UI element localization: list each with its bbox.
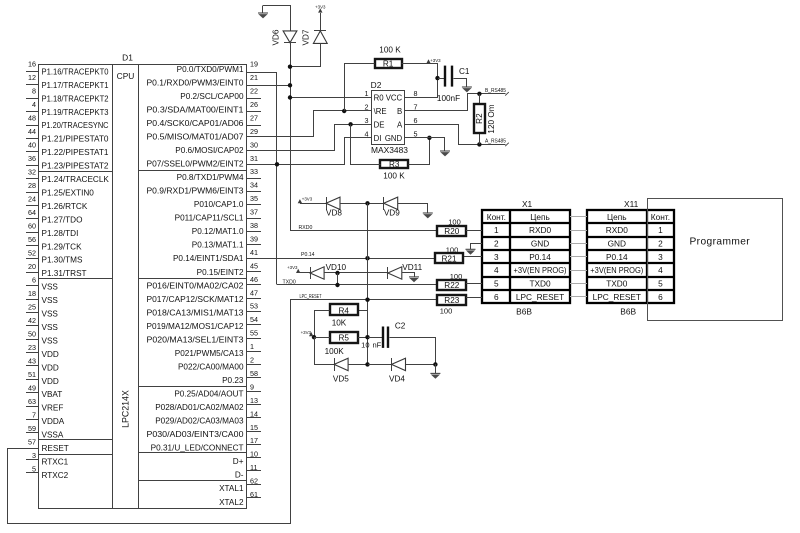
svg-text:2: 2: [365, 103, 369, 112]
svg-text:20: 20: [28, 262, 36, 271]
svg-text:P028/AD01/CA02/MA02: P028/AD01/CA02/MA02: [155, 403, 244, 412]
svg-text:VSSA: VSSA: [42, 431, 64, 440]
svg-text:P0.25/AD04/AOUT: P0.25/AD04/AOUT: [174, 390, 243, 399]
svg-text:Цепь: Цепь: [530, 212, 550, 222]
svg-text:55: 55: [250, 329, 258, 338]
svg-text:RTXC2: RTXC2: [42, 471, 69, 480]
svg-text:10: 10: [361, 340, 369, 349]
svg-text:47: 47: [250, 288, 258, 297]
svg-text:9: 9: [250, 382, 254, 391]
svg-text:+3V(EN PROG): +3V(EN PROG): [590, 265, 643, 275]
svg-text:B6B: B6B: [516, 306, 532, 316]
svg-text:VCC: VCC: [386, 94, 403, 103]
svg-text:VSS: VSS: [42, 336, 59, 345]
svg-text:13: 13: [250, 396, 258, 405]
svg-text:6: 6: [414, 116, 418, 125]
svg-text:61: 61: [250, 490, 258, 499]
svg-text:P1.30/TMS: P1.30/TMS: [42, 256, 83, 265]
svg-text:\RE: \RE: [374, 107, 387, 116]
svg-text:12: 12: [28, 73, 36, 82]
svg-text:2: 2: [494, 239, 499, 249]
svg-text:43: 43: [28, 357, 36, 366]
svg-text:22: 22: [250, 87, 258, 96]
svg-text:100: 100: [440, 306, 453, 315]
svg-text:RESET: RESET: [42, 444, 69, 453]
svg-text:44: 44: [28, 127, 36, 136]
svg-text:2: 2: [658, 239, 663, 249]
svg-text:R22: R22: [444, 281, 459, 290]
svg-text:P1.22/PIPESTAT1: P1.22/PIPESTAT1: [42, 148, 109, 157]
svg-text:42: 42: [28, 316, 36, 325]
svg-text:11: 11: [250, 463, 257, 472]
svg-text:VDD: VDD: [42, 377, 59, 386]
svg-text:C2: C2: [395, 321, 406, 330]
svg-text:50: 50: [28, 330, 36, 339]
svg-text:P0.4/SCK0/CAP01/AD06: P0.4/SCK0/CAP01/AD06: [147, 119, 244, 128]
svg-text:3: 3: [365, 116, 369, 125]
svg-text:P0.13/MAT1.1: P0.13/MAT1.1: [192, 241, 244, 250]
svg-text:29: 29: [250, 127, 258, 136]
svg-text:3: 3: [32, 451, 36, 460]
svg-text:P1.27/TDO: P1.27/TDO: [42, 215, 83, 224]
svg-text:R0: R0: [374, 94, 385, 103]
svg-text:P010/CAP1.0: P010/CAP1.0: [194, 200, 244, 209]
svg-text:3: 3: [658, 252, 663, 262]
svg-text:VSS: VSS: [42, 283, 59, 292]
svg-text:5: 5: [494, 279, 499, 289]
svg-text:100: 100: [450, 272, 463, 281]
svg-text:LPC_RESET: LPC_RESET: [300, 294, 323, 300]
svg-text:GND: GND: [531, 239, 549, 249]
svg-text:Programmer: Programmer: [689, 237, 750, 248]
svg-text:VD7: VD7: [302, 29, 311, 45]
svg-text:Цепь: Цепь: [607, 212, 627, 222]
svg-text:VREF: VREF: [42, 404, 64, 413]
svg-text:CPU: CPU: [117, 71, 135, 81]
svg-text:7: 7: [32, 411, 36, 420]
svg-text:100K: 100K: [325, 347, 345, 356]
svg-text:45: 45: [250, 261, 258, 270]
svg-text:R4: R4: [338, 306, 349, 315]
svg-text:53: 53: [250, 302, 258, 311]
svg-text:P1.24/TRACECLK: P1.24/TRACECLK: [42, 175, 110, 184]
svg-text:P030/AD03/EINT3/CA00: P030/AD03/EINT3/CA00: [147, 430, 244, 439]
svg-text:RTXC1: RTXC1: [42, 457, 69, 466]
svg-text:P029/AD02/CA03/MA03: P029/AD02/CA03/MA03: [155, 417, 244, 426]
svg-text:P0.14: P0.14: [606, 252, 628, 262]
svg-text:4: 4: [32, 100, 36, 109]
svg-text:1: 1: [365, 89, 369, 98]
svg-text:48: 48: [28, 114, 36, 123]
svg-text:P0.31/U_LED/CONNECT: P0.31/U_LED/CONNECT: [151, 444, 244, 453]
svg-text:VDDA: VDDA: [42, 417, 65, 426]
svg-text:P1.31/TRST: P1.31/TRST: [42, 269, 87, 278]
svg-text:LPC_RESET: LPC_RESET: [516, 292, 564, 302]
svg-text:26: 26: [250, 100, 258, 109]
svg-text:B: B: [397, 107, 402, 116]
svg-text:5: 5: [414, 129, 418, 138]
svg-text:25: 25: [28, 303, 36, 312]
svg-text:LPC214X: LPC214X: [121, 390, 131, 428]
svg-text:R21: R21: [441, 254, 456, 263]
svg-text:P1.16/TRACEPKT0: P1.16/TRACEPKT0: [42, 67, 109, 76]
svg-text:P1.29/TCK: P1.29/TCK: [42, 242, 83, 251]
svg-text:6: 6: [658, 292, 663, 302]
svg-text:D2: D2: [371, 80, 382, 90]
svg-text:46: 46: [250, 275, 258, 284]
svg-text:VSS: VSS: [42, 296, 59, 305]
svg-text:+3V3: +3V3: [315, 5, 326, 10]
svg-text:P0.5/MISO/MAT01/AD07: P0.5/MISO/MAT01/AD07: [147, 132, 244, 141]
svg-text:P0.6/MOSI/CAP02: P0.6/MOSI/CAP02: [175, 146, 244, 155]
svg-text:P0.3/SDA/MAT00/EINT1: P0.3/SDA/MAT00/EINT1: [147, 105, 244, 114]
svg-text:P019/MA12/MOS1/CAP12: P019/MA12/MOS1/CAP12: [147, 322, 244, 331]
svg-text:TXD0: TXD0: [606, 279, 628, 289]
svg-text:16: 16: [28, 60, 36, 69]
svg-text:R20: R20: [444, 227, 459, 236]
svg-text:18: 18: [28, 289, 36, 298]
svg-text:6: 6: [32, 276, 36, 285]
svg-text:TXD0: TXD0: [283, 280, 296, 286]
svg-text:64: 64: [28, 208, 36, 217]
svg-text:P0.14/EINT1/SDA1: P0.14/EINT1/SDA1: [173, 254, 244, 263]
svg-text:P0.15/EINT2: P0.15/EINT2: [197, 268, 244, 277]
svg-text:3: 3: [494, 252, 499, 262]
svg-text:P022/CA00/MA00: P022/CA00/MA00: [178, 362, 244, 371]
svg-text:VD4: VD4: [389, 375, 405, 384]
svg-text:XTAL1: XTAL1: [219, 484, 244, 493]
svg-text:41: 41: [250, 248, 258, 257]
svg-text:54: 54: [250, 315, 258, 324]
svg-text:VSS: VSS: [42, 323, 59, 332]
svg-text:P1.28/TDI: P1.28/TDI: [42, 229, 79, 238]
svg-text:8: 8: [32, 87, 36, 96]
svg-text:VD10: VD10: [326, 263, 347, 272]
svg-text:P0.1/RXD0/PWM3/EINT0: P0.1/RXD0/PWM3/EINT0: [147, 78, 244, 87]
svg-text:60: 60: [28, 222, 36, 231]
svg-text:VD8: VD8: [326, 209, 342, 218]
svg-text:X11: X11: [624, 199, 639, 209]
svg-text:59: 59: [28, 424, 36, 433]
svg-text:19: 19: [250, 60, 258, 69]
svg-text:28: 28: [28, 181, 36, 190]
svg-text:RXD0: RXD0: [606, 225, 629, 235]
svg-text:P018/CA13/MIS1/MAT13: P018/CA13/MIS1/MAT13: [147, 308, 244, 317]
svg-text:GND: GND: [385, 134, 403, 143]
svg-text:1: 1: [250, 342, 254, 351]
svg-text:P1.18/TRACEPKT2: P1.18/TRACEPKT2: [42, 94, 109, 103]
svg-text:P016/EINT0/MA02/CA02: P016/EINT0/MA02/CA02: [147, 281, 244, 290]
svg-text:VDD: VDD: [42, 350, 59, 359]
svg-text:P021/PWM5/CA13: P021/PWM5/CA13: [175, 349, 244, 358]
svg-text:A_RS485: A_RS485: [485, 139, 506, 145]
svg-text:100 K: 100 K: [379, 45, 401, 54]
svg-text:R23: R23: [444, 296, 459, 305]
svg-text:24: 24: [28, 195, 36, 204]
svg-text:P0.2/SCL/CAP00: P0.2/SCL/CAP00: [180, 92, 244, 101]
svg-text:1: 1: [658, 225, 663, 235]
svg-text:57: 57: [28, 438, 36, 447]
svg-text:X1: X1: [522, 199, 533, 209]
svg-text:XTAL2: XTAL2: [219, 498, 244, 507]
svg-text:51: 51: [28, 370, 36, 379]
svg-text:D+: D+: [233, 457, 244, 466]
svg-text:P0.0/TXD0/PWM1: P0.0/TXD0/PWM1: [177, 65, 244, 74]
svg-text:B6B: B6B: [620, 306, 636, 316]
svg-text:17: 17: [250, 436, 258, 445]
svg-text:56: 56: [28, 235, 36, 244]
svg-text:P0.14: P0.14: [301, 252, 315, 258]
svg-text:30: 30: [250, 140, 258, 149]
svg-text:27: 27: [250, 113, 258, 122]
svg-text:DI: DI: [374, 134, 382, 143]
svg-text:P0.23: P0.23: [222, 376, 244, 385]
svg-text:37: 37: [250, 208, 258, 217]
svg-text:32: 32: [28, 168, 36, 177]
svg-text:4: 4: [494, 265, 499, 275]
svg-text:P07/SSEL0/PWM2/EINT2: P07/SSEL0/PWM2/EINT2: [147, 160, 244, 169]
svg-text:P1.23/PIPESTAT2: P1.23/PIPESTAT2: [42, 162, 109, 171]
svg-text:1: 1: [494, 225, 499, 235]
svg-text:100nF: 100nF: [437, 94, 460, 103]
svg-text:P1.21/PIPESTAT0: P1.21/PIPESTAT0: [42, 135, 109, 144]
svg-text:40: 40: [28, 141, 36, 150]
svg-text:21: 21: [250, 73, 258, 82]
svg-text:P1.25/EXTIN0: P1.25/EXTIN0: [42, 188, 95, 197]
svg-text:+3V3: +3V3: [301, 330, 312, 335]
svg-text:P1.19/TRACEPKT3: P1.19/TRACEPKT3: [42, 108, 109, 117]
svg-text:4: 4: [658, 265, 663, 275]
svg-text:58: 58: [250, 369, 258, 378]
svg-text:TXD0: TXD0: [529, 279, 551, 289]
svg-text:GND: GND: [608, 239, 626, 249]
svg-text:120 Om: 120 Om: [487, 104, 496, 133]
svg-text:2: 2: [250, 356, 254, 365]
svg-text:31: 31: [250, 154, 258, 163]
svg-text:39: 39: [250, 234, 258, 243]
svg-text:R2: R2: [475, 113, 484, 124]
svg-text:63: 63: [28, 397, 36, 406]
svg-text:62: 62: [250, 477, 258, 486]
svg-text:P0.12/MAT1.0: P0.12/MAT1.0: [192, 227, 244, 236]
svg-text:34: 34: [250, 181, 258, 190]
svg-text:15: 15: [250, 423, 258, 432]
svg-text:B_RS485: B_RS485: [485, 88, 506, 94]
svg-text:+3V(EN PROG): +3V(EN PROG): [514, 265, 567, 275]
svg-text:VSS: VSS: [42, 310, 59, 319]
svg-text:100: 100: [448, 218, 461, 227]
svg-text:4: 4: [365, 129, 369, 138]
svg-text:P1.20/TRACESYNC: P1.20/TRACESYNC: [42, 121, 109, 130]
svg-text:P1.17/TRACEPKT1: P1.17/TRACEPKT1: [42, 81, 109, 90]
svg-text:DE: DE: [374, 120, 385, 129]
svg-text:R5: R5: [338, 334, 349, 343]
svg-text:R1: R1: [383, 59, 394, 68]
svg-text:35: 35: [250, 194, 258, 203]
svg-text:C1: C1: [459, 67, 470, 76]
svg-text:+3V3: +3V3: [430, 58, 441, 63]
svg-text:nF: nF: [373, 340, 382, 349]
svg-text:14: 14: [250, 409, 258, 418]
svg-text:D1: D1: [122, 53, 133, 63]
svg-text:49: 49: [28, 384, 36, 393]
svg-text:Конт.: Конт.: [651, 212, 670, 222]
svg-text:36: 36: [28, 154, 36, 163]
svg-text:52: 52: [28, 249, 36, 258]
svg-text:8: 8: [414, 89, 418, 98]
svg-text:MAX3483: MAX3483: [371, 146, 408, 155]
svg-text:P0.14: P0.14: [529, 252, 551, 262]
svg-text:33: 33: [250, 167, 258, 176]
svg-text:P0.8/TXD1/PWM4: P0.8/TXD1/PWM4: [177, 173, 244, 182]
svg-text:P020/MA13/SEL1/EINT3: P020/MA13/SEL1/EINT3: [147, 335, 244, 344]
svg-text:+3V3: +3V3: [287, 265, 298, 270]
svg-text:R3: R3: [389, 160, 400, 169]
svg-text:5: 5: [658, 279, 663, 289]
svg-text:VD11: VD11: [402, 263, 422, 272]
svg-text:10K: 10K: [332, 318, 347, 327]
svg-text:6: 6: [494, 292, 499, 302]
svg-text:VBAT: VBAT: [42, 390, 63, 399]
svg-text:+3V3: +3V3: [302, 197, 313, 202]
svg-text:P011/CAP11/SCL1: P011/CAP11/SCL1: [175, 214, 244, 223]
svg-text:38: 38: [250, 221, 258, 230]
svg-text:D-: D-: [235, 471, 244, 480]
svg-text:VD5: VD5: [333, 375, 349, 384]
svg-text:RXD0: RXD0: [529, 225, 552, 235]
svg-text:P1.26/RTCK: P1.26/RTCK: [42, 202, 88, 211]
svg-text:5: 5: [32, 465, 36, 474]
svg-text:P017/CAP12/SCK/MAT12: P017/CAP12/SCK/MAT12: [147, 295, 244, 304]
svg-text:100: 100: [446, 245, 459, 254]
svg-text:VD9: VD9: [384, 209, 400, 218]
svg-text:10: 10: [250, 450, 258, 459]
svg-text:A: A: [397, 120, 403, 129]
svg-text:100 K: 100 K: [383, 172, 405, 181]
svg-text:Конт.: Конт.: [487, 212, 506, 222]
svg-text:VD6: VD6: [271, 29, 280, 45]
svg-text:LPC_RESET: LPC_RESET: [593, 292, 641, 302]
svg-text:RXD0: RXD0: [299, 225, 313, 231]
svg-text:23: 23: [28, 343, 36, 352]
svg-text:P0.9/RXD1/PWM6/EINT3: P0.9/RXD1/PWM6/EINT3: [147, 187, 244, 196]
svg-text:VDD: VDD: [42, 363, 59, 372]
